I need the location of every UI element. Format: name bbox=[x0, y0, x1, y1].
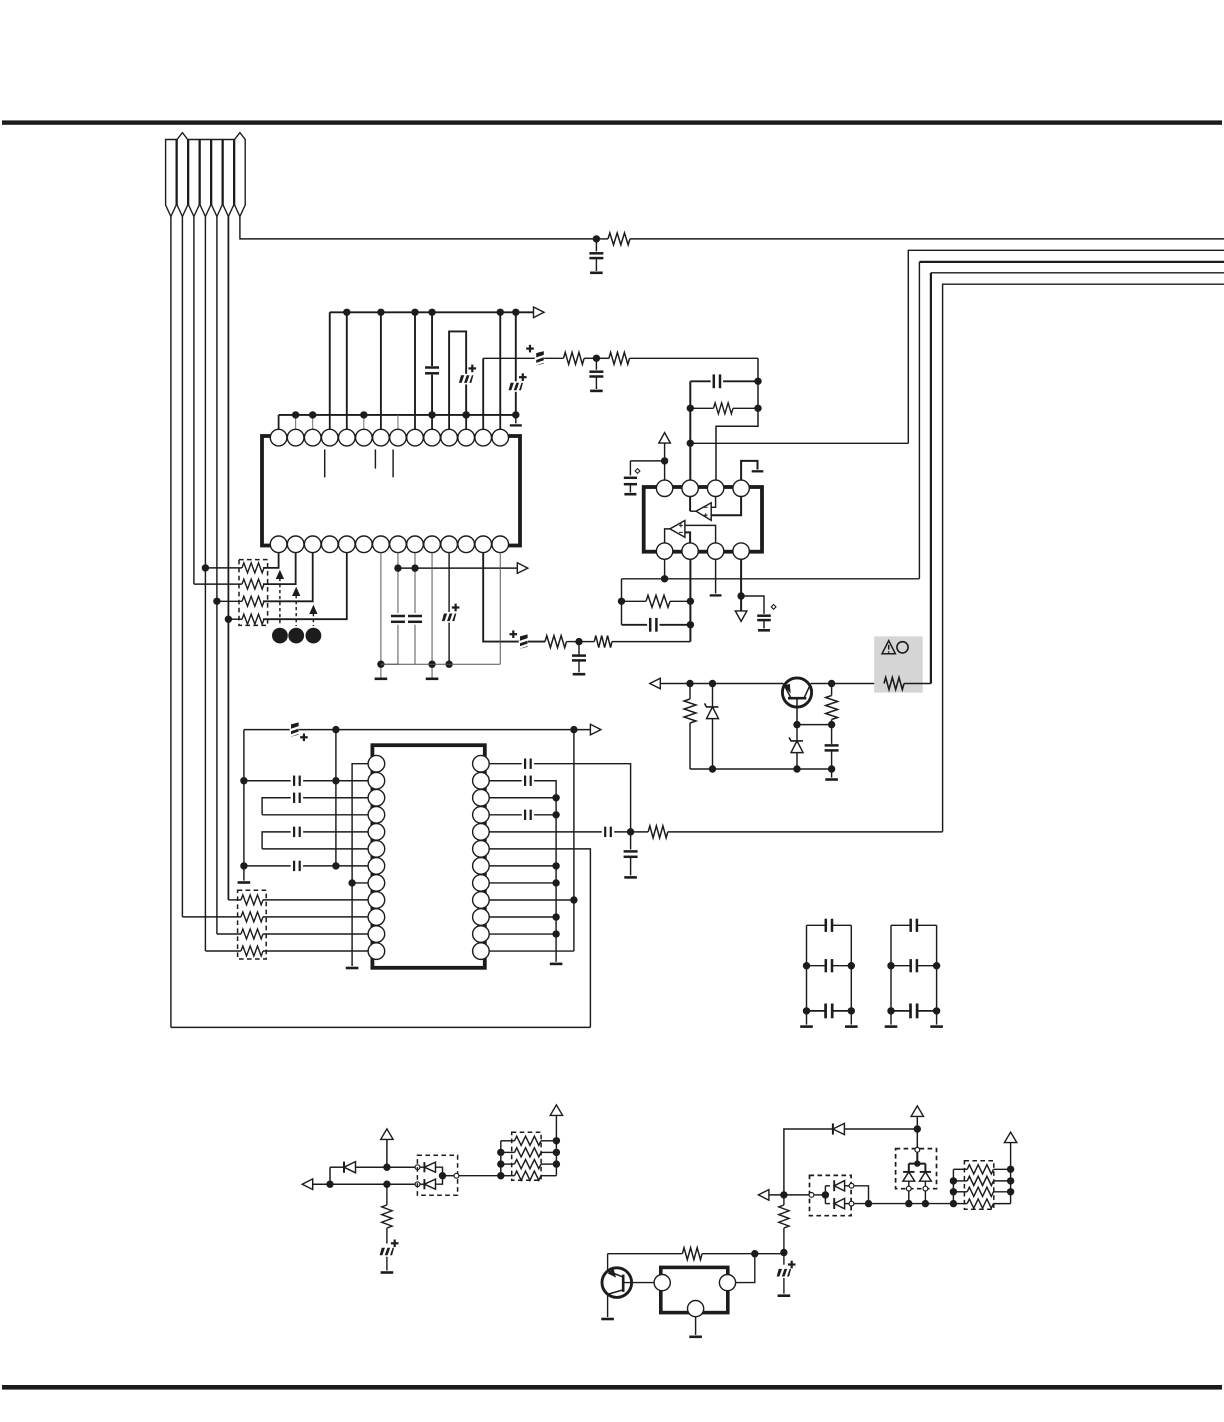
node at power riser bbox=[383, 1164, 390, 1171]
op-amp A2 input from pin7 bbox=[685, 525, 716, 543]
IC1 pin1 wire to R27 bbox=[263, 553, 279, 568]
wire nested corner 3 horizontal bbox=[931, 272, 1224, 274]
diode D9 in box bbox=[814, 1194, 826, 1196]
wire to decoupling cap bbox=[630, 460, 664, 462]
resistor R3 bbox=[596, 357, 609, 359]
ground for C12 bbox=[573, 673, 586, 676]
op-amp A1 triangle bbox=[696, 503, 711, 521]
IC2 pin4 termination stub bbox=[741, 461, 757, 480]
bottom rail of Q1 cell bbox=[690, 768, 832, 770]
resistor R29 bbox=[242, 596, 264, 606]
circle symbol bbox=[897, 642, 908, 653]
capacitor C21 row R4 bbox=[489, 814, 522, 816]
riser pin13 to chain2 bbox=[482, 358, 484, 415]
power bus above IC1 with arrow bbox=[330, 311, 534, 313]
wire chain2 to feedback node bbox=[630, 357, 759, 359]
resistor R28 bbox=[242, 579, 264, 589]
wire row R12 bbox=[489, 950, 574, 952]
pin rail above IC1 bbox=[279, 414, 516, 416]
IC4 bottom pin ground bbox=[695, 1317, 697, 1335]
Q1 base stem bbox=[796, 698, 798, 724]
vertical from supply arrow node bbox=[573, 730, 575, 951]
capacitor C6 to ground bbox=[595, 358, 597, 370]
IC2 top pins bbox=[656, 480, 672, 496]
riser pin14 bbox=[499, 312, 501, 415]
wire Q1 row bbox=[660, 683, 783, 685]
wire row L4 bbox=[262, 814, 368, 816]
IC1 body bbox=[262, 436, 520, 546]
wire to diode pair bbox=[916, 1129, 918, 1147]
resistor R9 vertical bbox=[831, 684, 833, 696]
wire chain2 from riser bbox=[483, 357, 563, 359]
electrolytic C4 riser at bus end bbox=[515, 312, 517, 381]
IC2 pin5 wire down bbox=[664, 559, 666, 579]
left feedback vertical (IC2 pin2) bbox=[689, 381, 691, 480]
wire CN1 pin6 down to IC3 resistor row1 bbox=[227, 217, 229, 900]
IC2 pin6 vertical to chain3 bbox=[689, 559, 691, 641]
IC2 bottom pins bbox=[656, 543, 672, 559]
capacitor ladder C24 left leg bbox=[806, 925, 808, 1024]
IC3 left rail vertical bbox=[243, 730, 245, 881]
row R6 down to bottom rail bbox=[489, 849, 590, 1028]
optocoupler dashed box bbox=[417, 1155, 457, 1195]
diode D10 in box bbox=[825, 1203, 830, 1205]
IC3 right pins bbox=[473, 755, 490, 772]
node chain2 junction bbox=[593, 355, 600, 362]
rail stubs to IC1 top pins bbox=[278, 415, 280, 429]
network right leg with power arrow (bottom-right) bbox=[1004, 1132, 1016, 1143]
feedback row wire bbox=[608, 1253, 683, 1255]
capacitor C25c bbox=[891, 1010, 911, 1012]
capacitor C9 bbox=[622, 624, 648, 626]
electrolytic C5 series bbox=[536, 351, 544, 366]
IC1 pin10 wire down with ground bbox=[431, 553, 433, 678]
jumper loop pins 11-12 bbox=[449, 331, 466, 415]
wire row L8 bbox=[352, 882, 368, 884]
IC1 pin14 wire to rail bbox=[499, 553, 501, 665]
capacitor C2 on riser pin10 bbox=[431, 312, 433, 366]
left branch vertical bbox=[621, 579, 623, 625]
arrow input left (bottom-right cell) bbox=[758, 1190, 769, 1201]
diode D6 bbox=[832, 1123, 834, 1134]
IC1 pin3 wire to R29 bbox=[263, 553, 313, 602]
ground for C26 bbox=[381, 1271, 394, 1274]
IC3 top supply wire with arrow bbox=[244, 729, 591, 731]
resistor R21 bbox=[953, 1168, 967, 1170]
ground stub bbox=[831, 769, 833, 778]
wire row R7 bbox=[489, 865, 556, 867]
IC4 bottom pin bbox=[688, 1301, 704, 1317]
diode D5 in box bbox=[420, 1183, 425, 1185]
row R5 with series capacitor C22 bbox=[489, 831, 602, 833]
feedback capacitor C7 bbox=[690, 380, 710, 382]
wire row R10 bbox=[489, 916, 556, 918]
wire y=578.8 to nested corner 2 bbox=[622, 578, 920, 580]
ground for C23 bbox=[624, 876, 637, 879]
IC2 pin7 ground stub bbox=[715, 559, 717, 593]
diode join to output bbox=[436, 1167, 443, 1184]
IC2 pin8 wire down bbox=[740, 559, 742, 611]
wire chain1 to right edge bbox=[630, 238, 1224, 240]
resistor R30 bbox=[242, 614, 264, 624]
op-amp A2 triangle bbox=[670, 521, 685, 538]
grounds for ladder C24 bbox=[800, 1025, 813, 1028]
wire nested corner 3 vertical (thick) bbox=[930, 273, 932, 684]
op-amp A2 input from pin6 bbox=[685, 532, 690, 543]
transistor Q2 bbox=[602, 1268, 632, 1298]
ground for IC3 left rail bbox=[238, 881, 251, 884]
resistor R22 bbox=[953, 1180, 967, 1182]
Q2 emitter to ground bbox=[607, 1294, 609, 1317]
capacitor C19 row R1 bbox=[489, 763, 522, 765]
capacitor C24a bbox=[807, 924, 826, 926]
IC1 pin7 wire down with ground bbox=[380, 553, 382, 678]
IC3 pin1 wire and ground leg bbox=[352, 764, 368, 966]
ceramic resonator IC4 body bbox=[661, 1267, 728, 1312]
node at power riser (bottom-right) bbox=[914, 1125, 921, 1132]
wire nested corner 1 bbox=[908, 250, 1224, 443]
electrolytic C11 series bbox=[520, 634, 528, 649]
resistor R12 row bbox=[241, 912, 263, 922]
op-amp A2 output to pin5 bbox=[665, 529, 670, 543]
resistor R15 bbox=[631, 831, 649, 833]
resistor R5 bbox=[622, 600, 647, 602]
bottom rail wire bbox=[171, 1026, 591, 1028]
electrolytic C27 bbox=[783, 1253, 785, 1265]
resistor network box at IC3 bbox=[238, 890, 267, 959]
IC3 body bbox=[372, 745, 484, 968]
IC1 top pins bbox=[270, 429, 287, 446]
riser pin5 bbox=[346, 312, 348, 415]
IC1 pin8 wire with capacitor C28 bbox=[397, 553, 399, 613]
warning highlight box bbox=[874, 636, 923, 692]
ground for C10 bbox=[758, 629, 770, 632]
wire IC2 to nested corner 1 bbox=[690, 442, 908, 444]
warning triangle symbol bbox=[882, 641, 895, 654]
resistor R10 in warning box bbox=[884, 678, 904, 690]
bottom page rule bbox=[2, 1385, 1222, 1390]
diode pair feed tee bbox=[916, 1152, 918, 1163]
resistor network dashed box (bottom-left) bbox=[512, 1132, 541, 1180]
wire to resistor network bbox=[459, 1175, 501, 1177]
IC1 pin2 wire to R28 bbox=[263, 553, 296, 585]
stub ground at rail end bbox=[515, 415, 517, 424]
IC4 right pin bbox=[719, 1275, 735, 1291]
top page rule bbox=[2, 120, 1222, 124]
capacitor C17 row L5 with jog bbox=[262, 832, 291, 849]
wire to optocoupler pin bbox=[387, 1166, 415, 1168]
transistor Q1 bbox=[782, 678, 811, 707]
ground for R-side rail bbox=[550, 963, 563, 966]
wire row R8 bbox=[489, 882, 556, 884]
electrolytic C14 series on IC3 supply bbox=[291, 722, 299, 737]
feedback vertical right bbox=[716, 358, 758, 480]
resistor R16 below bbox=[383, 1181, 390, 1188]
capacitor C25a bbox=[891, 924, 911, 926]
optocoupler input pins (open circles) bbox=[415, 1165, 420, 1170]
capacitor C13 bbox=[831, 725, 833, 744]
op-amp A1 output wire from pin2 bbox=[689, 497, 691, 512]
IC1 bottom rail bbox=[381, 663, 500, 665]
node chain1 junction bbox=[593, 235, 600, 242]
resistor R19 bbox=[501, 1163, 515, 1165]
electrolytic C10 at pin8 bbox=[741, 596, 764, 614]
wire row L6 bbox=[262, 848, 368, 850]
wire base row bbox=[797, 724, 832, 726]
riser pin4 bbox=[329, 312, 331, 415]
power arrow at IC2 pin1 bbox=[659, 433, 671, 444]
resistor R2 bbox=[564, 352, 585, 364]
IC1 pin5 wire to R30 bbox=[263, 553, 347, 620]
capacitor ladder C24 right leg bbox=[850, 925, 852, 1024]
capacitor C24b bbox=[807, 965, 826, 967]
bottom row wire bbox=[854, 1203, 954, 1205]
power-down arrow at pin8 bbox=[735, 611, 747, 622]
resistor R14 row bbox=[241, 946, 263, 956]
capacitor C24c bbox=[807, 1010, 826, 1012]
resistor R1 bbox=[596, 238, 608, 240]
stubs to bottom row bbox=[908, 1191, 910, 1204]
network right leg with power arrow bbox=[550, 1105, 562, 1116]
riser pin7 bbox=[380, 312, 382, 415]
optocoupler dashed box (bottom-right) bbox=[810, 1175, 852, 1215]
wire nested corner 2 horizontal (thick) bbox=[919, 261, 1224, 263]
rail junction dots bbox=[292, 411, 299, 418]
riser to diode row bbox=[329, 1167, 331, 1184]
wire CN1 pin1 to bottom rail bbox=[170, 217, 172, 1028]
feedback resistor R4 bbox=[690, 407, 713, 409]
collector riser to Q2 bbox=[607, 1254, 609, 1271]
resistor R6 bbox=[545, 636, 566, 648]
node R25 bottom bbox=[780, 1249, 787, 1256]
diode D4 in box bbox=[420, 1166, 425, 1168]
node bottom-left bbox=[326, 1181, 333, 1188]
resistor R18 bbox=[501, 1151, 515, 1153]
resistor R25 vertical bbox=[779, 1205, 789, 1228]
diode D7 (up) bbox=[908, 1164, 910, 1172]
node on supply wire bbox=[332, 726, 339, 733]
IC1 pin11 wire with electrolytic C30 bbox=[448, 553, 450, 612]
power arrow bottom-right bbox=[911, 1106, 923, 1117]
capacitor C23 to ground bbox=[630, 832, 632, 850]
resistor R7 bbox=[579, 641, 594, 643]
op-amp A1 inverting input from pin3 bbox=[711, 497, 715, 508]
ground for pin1 leg bbox=[346, 967, 359, 970]
riser to top diode row bbox=[784, 1129, 833, 1195]
wire row R11 bbox=[489, 933, 556, 935]
arrow row below IC1 bbox=[398, 567, 517, 569]
IC1 bottom pins bbox=[270, 536, 287, 553]
network left leg (bottom-right) bbox=[952, 1169, 954, 1203]
resistor R26 bbox=[682, 1248, 702, 1260]
IC1 pin9 wire with capacitor C29 bbox=[414, 553, 416, 613]
resistor R11 row bbox=[241, 895, 263, 905]
ground for C1 bbox=[590, 271, 603, 274]
capacitor C25b bbox=[891, 965, 911, 967]
riser pin9 bbox=[414, 312, 416, 415]
resistor R17 bbox=[501, 1140, 515, 1142]
Q1 collector wire right bbox=[811, 683, 884, 685]
resistor R13 row bbox=[241, 929, 263, 939]
zener diode D2 bbox=[796, 725, 798, 741]
wire CN1 pin7 down then right (chain1 net) bbox=[240, 217, 597, 239]
diode pair dashed box bbox=[896, 1149, 937, 1189]
diode D3 bbox=[330, 1166, 344, 1168]
IC1 internal separator ticks bbox=[324, 450, 326, 478]
wire CN1 pin2 down to IC3 resistor row2 bbox=[181, 217, 183, 917]
node bottom-right main bbox=[780, 1191, 787, 1198]
ground for C27 bbox=[778, 1294, 791, 1297]
capacitor C12 to ground bbox=[578, 642, 580, 655]
IC4 left pin bbox=[654, 1275, 670, 1291]
wire nested corner 4 bbox=[943, 284, 1224, 832]
capacitor C15 row L2 bbox=[244, 780, 291, 782]
wire CN1 pin4 down to IC3 resistor row4 bbox=[204, 217, 206, 952]
branch to IC4 right pin bbox=[735, 1254, 754, 1283]
electrolytic C8 at IC2 pin1 bbox=[629, 461, 631, 476]
IC1 pin13 wire down to chain3 bbox=[483, 553, 545, 642]
wire row R9 bbox=[489, 899, 574, 901]
capacitor C18 row L7 bbox=[244, 865, 291, 867]
electrolytic C26 bbox=[379, 1247, 394, 1255]
power arrow bottom-left bbox=[381, 1129, 393, 1140]
output arrow left bbox=[650, 678, 661, 689]
grounds for ladder C25 bbox=[885, 1025, 898, 1028]
IC3 left pins bbox=[368, 755, 385, 772]
zener diode D1 bbox=[712, 684, 714, 707]
diode D8 (up) bbox=[924, 1164, 926, 1172]
resistor R24 bbox=[953, 1203, 967, 1205]
capacitor C1 to ground bbox=[595, 239, 597, 252]
resistor R8 vertical bbox=[689, 684, 691, 700]
LED arrows (optical indicators) bbox=[279, 578, 281, 626]
network left leg bbox=[500, 1141, 502, 1176]
arrow input left (bottom-left cell) bbox=[302, 1179, 313, 1190]
ground for C6 bbox=[590, 390, 603, 393]
resistor R27 bbox=[242, 563, 264, 573]
wire from D9 corner down bbox=[854, 1186, 869, 1204]
capacitor ladder C25 right leg bbox=[936, 925, 938, 1024]
resistor R20 bbox=[501, 1175, 515, 1177]
LED dots bbox=[272, 628, 288, 644]
resistor network dashed box (bottom-right) bbox=[964, 1161, 993, 1210]
capacitor C16 row L3 with jog bbox=[262, 798, 291, 815]
electrolytic C3 on loop leg pin12 bbox=[459, 375, 474, 383]
wire row R3 bbox=[489, 797, 556, 799]
wire nested corner 2 vertical bbox=[918, 262, 920, 579]
wire CN1 pin5 down to IC3 resistor row3 bbox=[216, 217, 218, 935]
node chain3 junction bbox=[575, 638, 582, 645]
resistor R23 bbox=[953, 1191, 967, 1193]
Q2 base wire to IC4 bbox=[623, 1282, 654, 1284]
node to right-edge wire bbox=[687, 440, 694, 447]
op-amp IC2 body bbox=[644, 487, 762, 552]
ground for C8 bbox=[624, 493, 636, 496]
connector CN1 (7-pin ribbon header) bbox=[166, 140, 177, 217]
LED resistor dashed box bbox=[239, 560, 268, 626]
capacitor C20 row R2 bbox=[489, 780, 522, 782]
IC3 inner vertical bbox=[335, 730, 337, 866]
row from main node down bbox=[783, 1195, 785, 1205]
wire CN1 pin3 down to IC1 resistor row2 bbox=[193, 217, 195, 585]
capacitor ladder C25 left leg bbox=[890, 925, 892, 1024]
op-amp A1 non-inverting input from pin4 bbox=[711, 497, 741, 516]
